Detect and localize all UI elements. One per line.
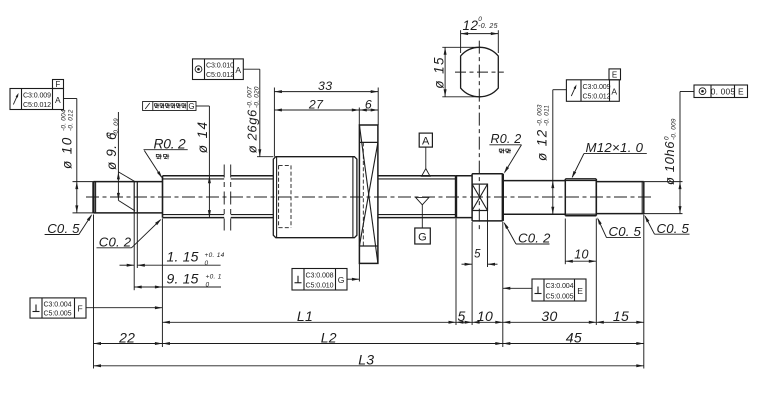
- svg-text:L3: L3: [358, 352, 374, 368]
- tolerance frame bottom-right (perp C3/C5 E): [532, 279, 586, 301]
- svg-text:-0. 020: -0. 020: [254, 86, 261, 108]
- svg-text:G: G: [188, 102, 195, 111]
- svg-text:L1: L1: [297, 308, 313, 324]
- svg-text:ø 10: ø 10: [60, 136, 75, 169]
- svg-text:22: 22: [118, 329, 135, 345]
- svg-text:ø 26g6: ø 26g6: [245, 109, 260, 153]
- svg-text:C5:0.012: C5:0.012: [206, 71, 234, 79]
- svg-text:ø 15: ø 15: [432, 56, 447, 89]
- svg-text:F: F: [55, 80, 60, 89]
- svg-text:10: 10: [477, 308, 493, 324]
- dimension 27: [274, 97, 359, 125]
- svg-text:ø 14: ø 14: [195, 121, 210, 154]
- callout C0.2 right: [504, 222, 551, 246]
- svg-text:9. 15: 9. 15: [167, 270, 199, 286]
- svg-text:ø 10h6: ø 10h6: [662, 141, 677, 185]
- tolerance frame far-right (conc 0.005 E): [694, 85, 748, 98]
- dimension 6: [359, 97, 378, 111]
- dimension L3: [94, 352, 644, 368]
- svg-text:-0. 003: -0. 003: [537, 104, 544, 126]
- svg-text:6: 6: [365, 97, 372, 111]
- dimension 10 (row1): [472, 308, 503, 324]
- svg-text:-0. 012: -0. 012: [68, 109, 75, 131]
- section cut line: [478, 41, 480, 230]
- svg-text:C5:0.005: C5:0.005: [546, 292, 574, 300]
- svg-text:C0. 5: C0. 5: [609, 224, 642, 239]
- svg-text:C5:0.012: C5:0.012: [583, 93, 611, 101]
- break lines: [224, 165, 231, 231]
- svg-text:ø 12: ø 12: [535, 128, 550, 161]
- dimension 10 (thread len): [565, 219, 596, 265]
- tolerance frame bottom-mid (perp C3/C5 G): [292, 269, 347, 291]
- svg-text:E: E: [612, 71, 618, 80]
- dimension 9.15: [134, 270, 222, 288]
- dimension 22: [94, 329, 163, 345]
- svg-text:C3:0.004: C3:0.004: [546, 282, 574, 290]
- svg-text:C3:0.009: C3:0.009: [23, 91, 51, 99]
- dimension 30: [503, 308, 597, 324]
- svg-text:A: A: [422, 136, 430, 148]
- dimension 33: [274, 79, 378, 157]
- svg-text:R0. 2: R0. 2: [491, 132, 522, 146]
- relief groove O9.6: [134, 182, 137, 213]
- wrench flat box with cross: [472, 184, 487, 210]
- shoulder at screw start: [162, 176, 164, 218]
- ball screw section (break to nut): [231, 176, 274, 218]
- shaft left journal O10: [73, 182, 163, 213]
- ball screw section (flange to end): [378, 176, 456, 218]
- svg-text:C3:0.008: C3:0.008: [306, 272, 334, 280]
- svg-text:A: A: [55, 95, 61, 105]
- ball nut body O26g6: [257, 157, 357, 238]
- svg-text:C5:0.005: C5:0.005: [44, 310, 72, 318]
- svg-text:-0. 009: -0. 009: [671, 118, 678, 140]
- hidden feature in nut: [279, 165, 291, 227]
- tolerance frame top-left (runout C3/C5 A, F): [10, 80, 64, 110]
- dimension O10 left: [60, 99, 79, 213]
- svg-text:-0. 007: -0. 007: [247, 86, 254, 108]
- extension lines bottom: [94, 215, 644, 369]
- thread M12: [565, 179, 596, 216]
- svg-text:ø 9. 6: ø 9. 6: [104, 132, 119, 170]
- svg-text:L2: L2: [321, 329, 337, 345]
- korean surface note box: [143, 102, 196, 112]
- svg-text:G: G: [338, 275, 345, 285]
- svg-text:F: F: [78, 304, 84, 314]
- svg-text:-0. 09: -0. 09: [113, 118, 120, 136]
- svg-text:C5:0.010: C5:0.010: [306, 281, 334, 289]
- section view h-centerline: [455, 71, 504, 73]
- dimension 15: [596, 308, 644, 324]
- svg-text:0: 0: [478, 16, 482, 23]
- dimension 12 across flats: [461, 16, 499, 53]
- svg-text:0: 0: [205, 260, 209, 267]
- callout C0.2 left: [97, 219, 162, 250]
- svg-text:M12×1. 0: M12×1. 0: [586, 140, 644, 155]
- dimension 5 (row1): [456, 308, 472, 324]
- svg-text:C3:0.009: C3:0.009: [583, 83, 611, 91]
- svg-text:0. 005: 0. 005: [711, 86, 736, 96]
- dimension O26g6: [245, 69, 262, 157]
- svg-text:-0. 004: -0. 004: [61, 109, 68, 131]
- callout M12x1.0: [572, 140, 647, 178]
- dimension 5 (flat width): [462, 211, 498, 268]
- svg-text:30: 30: [541, 308, 557, 324]
- svg-text:E: E: [738, 87, 744, 97]
- svg-text:12: 12: [463, 18, 479, 33]
- svg-text:-0. 25: -0. 25: [478, 23, 498, 30]
- svg-text:+0. 1: +0. 1: [206, 274, 222, 281]
- svg-text:0: 0: [664, 136, 671, 140]
- svg-text:27: 27: [308, 97, 324, 111]
- callout R0.2 right: [489, 132, 521, 174]
- dimension O9.6: [104, 112, 135, 211]
- svg-text:C0. 5: C0. 5: [657, 221, 690, 236]
- leaders from frames: [86, 69, 532, 309]
- flange: [359, 125, 378, 282]
- O15 disk with flats: [472, 174, 503, 221]
- dimension L2: [162, 329, 502, 345]
- svg-text:-0. 011: -0. 011: [544, 105, 551, 126]
- svg-text:0: 0: [106, 132, 113, 136]
- tolerance frame top-right (runout C3/C5 A, E): [566, 69, 620, 101]
- svg-text:1. 15: 1. 15: [167, 249, 199, 265]
- centerline main axis: [86, 196, 652, 198]
- svg-text:G: G: [418, 232, 427, 244]
- svg-text:C3:0.004: C3:0.004: [44, 300, 72, 308]
- svg-text:+0. 14: +0. 14: [205, 252, 225, 259]
- svg-text:C0. 5: C0. 5: [47, 221, 80, 236]
- section view circle O15 with flats: [461, 47, 499, 97]
- svg-text:C5:0.012: C5:0.012: [23, 101, 51, 109]
- tolerance frame bottom-left (perp C3/C5 F): [30, 298, 86, 318]
- svg-text:C3:0.010: C3:0.010: [206, 62, 234, 70]
- O12 journal: [503, 181, 566, 215]
- callout R0.2 left: [144, 136, 188, 178]
- svg-text:45: 45: [566, 329, 582, 345]
- callout C0.5 left: [45, 214, 93, 236]
- svg-text:0: 0: [206, 282, 210, 289]
- dimension 1.15: [120, 213, 225, 290]
- svg-text:15: 15: [613, 308, 629, 324]
- datum G: [415, 197, 431, 244]
- dimension O14: [195, 106, 211, 218]
- svg-text:5: 5: [474, 248, 481, 260]
- svg-text:33: 33: [318, 79, 333, 93]
- plain segment 5mm: [456, 176, 472, 218]
- ball screw section (left of break): [163, 176, 225, 218]
- datum A: [419, 133, 432, 176]
- svg-text:10: 10: [574, 248, 589, 262]
- screw end line: [455, 176, 457, 218]
- dimension O12 right: [535, 90, 567, 215]
- svg-text:A: A: [611, 86, 617, 96]
- callout C0.5 far right: [645, 215, 690, 236]
- dimension O15: [432, 47, 482, 97]
- svg-text:C0. 2: C0. 2: [99, 234, 132, 249]
- dimension O10h6: [662, 92, 694, 214]
- svg-text:E: E: [577, 286, 583, 296]
- svg-text:5: 5: [457, 308, 465, 324]
- tolerance frame mid (conc C3/C5 A): [193, 59, 244, 80]
- svg-text:A: A: [235, 65, 241, 75]
- callout C0.5 mid-right: [597, 217, 641, 239]
- svg-text:C0. 2: C0. 2: [518, 231, 551, 246]
- O10h6 end journal: [596, 182, 682, 214]
- svg-text:R0. 2: R0. 2: [154, 136, 187, 151]
- dimension 45: [503, 329, 644, 345]
- dimension L1: [162, 308, 456, 324]
